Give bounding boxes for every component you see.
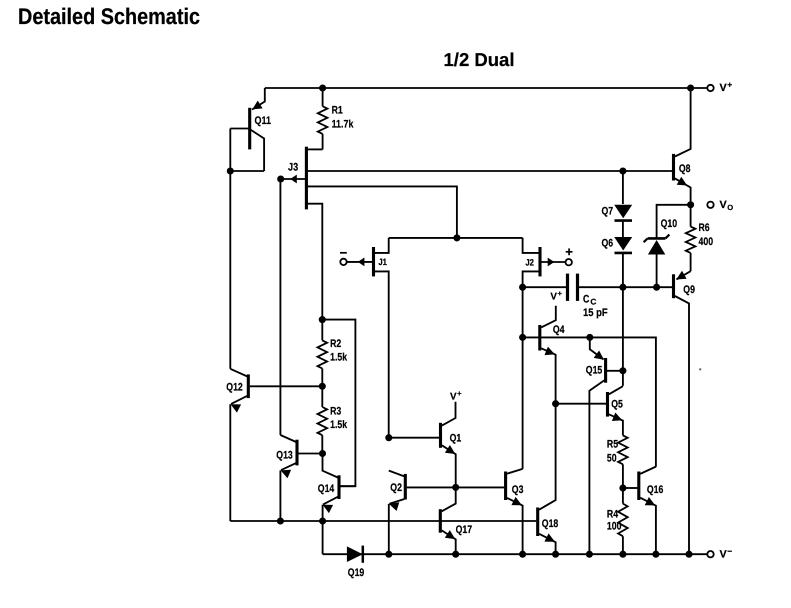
node bottom rail junction x388 [385, 551, 392, 558]
svg-text:100: 100 [607, 520, 622, 532]
svg-text:Q17: Q17 [456, 524, 472, 536]
transistor Q2 [389, 471, 456, 511]
jfet J1 [347, 238, 389, 438]
resistor R6 [686, 205, 696, 271]
wire sources line [389, 237, 523, 239]
node bottom rail junction x589 [586, 551, 593, 558]
svg-text:Q13: Q13 [276, 449, 292, 461]
wire left rail lower [229, 404, 231, 521]
label R2 value [330, 338, 348, 364]
label Q15 [586, 365, 602, 377]
node Q4 emitter junction [552, 400, 559, 407]
input terminal minus [340, 253, 347, 265]
svg-text:Q4: Q4 [553, 324, 565, 336]
transistor Q5 [608, 386, 623, 435]
transistor Q12 [230, 369, 322, 413]
label R4 value [607, 508, 622, 532]
input terminal plus [566, 248, 573, 265]
svg-text:V: V [720, 82, 728, 94]
label Q1 and V+ tap [450, 389, 463, 444]
svg-text:Q12: Q12 [226, 381, 242, 393]
capacitor Cc [523, 274, 673, 301]
svg-text:V: V [450, 392, 457, 403]
transistor Q11 [230, 88, 264, 171]
svg-text:Q16: Q16 [647, 484, 663, 496]
diode Q19 [347, 546, 363, 563]
transistor Q4 [540, 306, 556, 404]
resistor R1 [318, 88, 328, 149]
svg-text:Q2: Q2 [390, 482, 402, 494]
node bottom rail junction x655 [652, 551, 659, 558]
title text [18, 4, 200, 29]
label Q2 [390, 482, 402, 494]
svg-text:50: 50 [607, 452, 617, 464]
label J1 [378, 257, 387, 267]
label Q11 [255, 115, 271, 127]
node junction dot top rail at Q8 [687, 84, 694, 91]
node Q4 base junction [519, 334, 526, 341]
svg-text:Q19: Q19 [348, 567, 364, 579]
transistor Q17 [440, 487, 455, 554]
diode Q7 [614, 205, 632, 237]
label Q9 [683, 284, 695, 296]
wire Q13 emitter rail [279, 470, 281, 521]
wire lower base bus [230, 520, 536, 522]
label Q19 [348, 567, 364, 579]
label Q18 [542, 518, 558, 530]
jfet J2 [523, 238, 566, 287]
transistor Q18 [538, 404, 556, 555]
svg-text:V: V [720, 199, 728, 211]
svg-text:Q11: Q11 [255, 115, 271, 127]
label J3 [288, 161, 298, 173]
node Q1 base junction [385, 434, 392, 441]
transistor Q8 [674, 88, 691, 205]
wire J2 drain rail [522, 287, 524, 469]
node bottom rail junction x555 [552, 551, 559, 558]
label Cc value [583, 293, 608, 319]
label Q17 [456, 524, 472, 536]
label Q4 and V+ tap [550, 289, 564, 336]
label Q14 [318, 483, 334, 495]
wire Q8 base junction down [622, 171, 624, 204]
diode Q6 [614, 237, 632, 287]
node Q6 bottom junction [619, 284, 626, 291]
svg-text:Q6: Q6 [602, 237, 614, 249]
transistor Q9 [674, 271, 691, 554]
label Q6 [602, 237, 614, 249]
label Q16 [647, 484, 663, 496]
label Q8 [679, 163, 691, 175]
node Q15 base junction [619, 367, 626, 374]
svg-text:J1: J1 [378, 257, 387, 267]
resistor R5 [618, 435, 628, 488]
wire bus down leg [322, 521, 324, 554]
resistor R2 [318, 320, 328, 387]
svg-text:R3: R3 [330, 405, 341, 417]
wire V- bottom rail [323, 553, 708, 555]
wire Q14 emitter [322, 505, 324, 521]
svg-text:1/2 Dual: 1/2 Dual [444, 49, 515, 70]
label Q3 [512, 484, 524, 496]
transistor Q14 [323, 454, 356, 514]
svg-text:Q15: Q15 [586, 365, 602, 377]
wire Q6 junction to Q15 base [622, 287, 624, 386]
svg-text:Q5: Q5 [611, 398, 623, 410]
svg-text:J2: J2 [525, 257, 534, 267]
V- terminal [707, 546, 732, 561]
wire Q2 emitter rail [388, 504, 390, 554]
svg-text:11.7k: 11.7k [332, 119, 355, 131]
svg-text:+: + [727, 79, 732, 89]
transistor Q15 [589, 337, 623, 554]
node J2 drain junction at Cc [519, 284, 526, 291]
node Q10 anode junction [653, 284, 660, 291]
node bottom rail junction x522 [519, 551, 526, 558]
label R3 value [330, 405, 348, 431]
node junction dot top rail at R1 [319, 84, 326, 91]
node J3 gate junction [277, 175, 284, 182]
svg-text:Detailed Schematic: Detailed Schematic [18, 4, 200, 29]
svg-text:Q10: Q10 [661, 218, 677, 230]
svg-text:R6: R6 [699, 222, 710, 234]
wire Q5 base line [556, 403, 607, 405]
node bus dot Q13 [277, 517, 284, 524]
svg-text:−: − [727, 546, 732, 556]
label R6 value [699, 222, 714, 248]
svg-text:Q9: Q9 [683, 284, 695, 296]
svg-text:Q1: Q1 [450, 432, 462, 444]
V0 terminal [707, 199, 733, 212]
svg-text:R1: R1 [332, 104, 343, 116]
svg-text:Q3: Q3 [512, 484, 524, 496]
node stray speck [699, 368, 701, 370]
wire R2 top to Q14 base [322, 320, 355, 487]
transistor Q16 [623, 467, 656, 555]
jfet J3 [281, 147, 323, 320]
wire Q4 base line [523, 337, 656, 467]
svg-text:C: C [590, 296, 596, 306]
svg-text:15 pF: 15 pF [583, 307, 608, 319]
V+ terminal [707, 79, 732, 94]
svg-text:V: V [720, 549, 728, 561]
transistor Q1 [389, 402, 456, 488]
wire J3 to Q8 base [308, 170, 672, 172]
svg-text:R2: R2 [330, 338, 341, 350]
label Q10 [661, 218, 677, 230]
node sources line junction [453, 234, 460, 241]
wire left rail upper [229, 171, 231, 369]
subtitle 1/2 Dual [444, 49, 515, 70]
label R5 value [607, 439, 618, 465]
node R2 top junction [319, 316, 326, 323]
node bus dot Q14 [319, 517, 326, 524]
resistor R4 [618, 488, 628, 554]
node bottom rail junction x455 [452, 551, 459, 558]
node V0 junction [687, 201, 694, 208]
label Q7 [602, 205, 614, 217]
node R2-R3 junction [319, 383, 326, 390]
node R5-R4 junction [619, 484, 626, 491]
label R1 value [332, 104, 355, 130]
resistor R3 [318, 386, 328, 453]
svg-text:1.5k: 1.5k [330, 419, 348, 431]
wire J3 second line [308, 186, 457, 238]
label J2 [525, 257, 534, 267]
svg-text:Q18: Q18 [542, 518, 558, 530]
label Q5 [611, 398, 623, 410]
node bottom rail junction x622 [619, 551, 626, 558]
node Q8 base junction [619, 167, 626, 174]
wire J3 gate rail [279, 179, 281, 435]
node Q15 emitter junction [586, 334, 593, 341]
node Q11 base-collector junction [227, 167, 234, 174]
svg-text:400: 400 [699, 236, 714, 248]
svg-text:+: + [457, 389, 462, 398]
svg-text:J3: J3 [288, 161, 298, 173]
node bottom rail junction x689 [685, 551, 692, 558]
svg-text:R4: R4 [607, 508, 618, 520]
wire V0 to Q10 [657, 205, 691, 239]
node Q1 emitter junction [452, 484, 459, 491]
node R3 bottom junction [319, 450, 326, 457]
zener Q10 [644, 235, 670, 288]
wire V+ top rail [265, 87, 708, 89]
svg-text:Q7: Q7 [602, 205, 614, 217]
label Q13 [276, 449, 292, 461]
svg-text:+: + [558, 289, 563, 298]
svg-text:R5: R5 [607, 439, 618, 451]
svg-text:V: V [550, 292, 557, 303]
transistor Q3 [456, 469, 523, 554]
svg-text:C: C [583, 293, 589, 305]
transistor Q13 [280, 435, 322, 478]
svg-text:Q8: Q8 [679, 163, 691, 175]
svg-text:1.5k: 1.5k [330, 352, 348, 364]
svg-text:Q14: Q14 [318, 483, 334, 495]
svg-text:O: O [727, 203, 733, 212]
label Q12 [226, 381, 242, 393]
